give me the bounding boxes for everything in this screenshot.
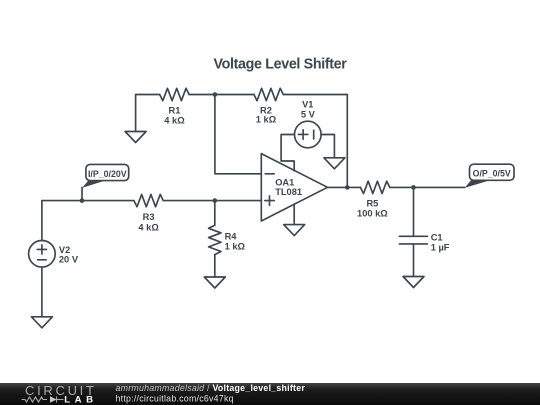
wire op-amp output to R5 <box>328 186 361 188</box>
capacitor C1 <box>399 236 427 244</box>
logo schematic glyph <box>22 397 64 403</box>
wire R2 to output node (feedback) <box>283 95 347 188</box>
wire ground to R1 <box>136 95 160 132</box>
wire C1 to ground <box>413 244 415 277</box>
wire op-amp V+ pin to V1 <box>281 135 294 171</box>
svg-text:1 kΩ: 1 kΩ <box>225 242 246 252</box>
wire V2 top <box>41 201 43 241</box>
resistor R3 <box>134 194 163 206</box>
svg-text:R1: R1 <box>169 105 181 115</box>
svg-text:R3: R3 <box>143 212 155 222</box>
voltage source V2 <box>29 241 56 268</box>
svg-text:V1: V1 <box>302 99 313 109</box>
wire node A down to inverting input <box>215 95 261 174</box>
wire V2 bottom to ground <box>41 267 43 317</box>
logo diode <box>50 396 57 402</box>
V2 plus mark <box>37 245 46 254</box>
svg-text:5 V: 5 V <box>301 110 316 120</box>
op-amp non-inverting pin mark <box>265 196 274 205</box>
ground G4 (C1) <box>403 277 424 288</box>
node A junction <box>213 92 218 97</box>
svg-text:4 kΩ: 4 kΩ <box>164 116 185 126</box>
wire V2 to R3 (input rail) <box>42 200 134 202</box>
op-amp inverting pin mark <box>265 173 274 175</box>
wire node to R4 <box>214 201 216 226</box>
ground G3 (op-amp) <box>284 225 305 236</box>
svg-text:LAB: LAB <box>64 395 97 405</box>
svg-text:TL081: TL081 <box>275 187 302 197</box>
svg-text:R4: R4 <box>225 231 238 241</box>
ground G6 (V2) <box>31 317 52 328</box>
ground G1 (below R1 left) <box>125 132 146 143</box>
wire output node to C1 <box>413 187 415 236</box>
svg-text:1 kΩ: 1 kΩ <box>256 114 277 124</box>
node input junction <box>80 198 85 203</box>
svg-text:C1: C1 <box>431 232 443 242</box>
op-amp OA1 <box>261 154 327 221</box>
svg-text:Voltage Level Shifter: Voltage Level Shifter <box>213 57 347 73</box>
wire V1 to ground <box>321 135 334 158</box>
node output junction <box>411 185 416 190</box>
svg-text:amrmuhammadelsaid / Voltage_le: amrmuhammadelsaid / Voltage_level_shifte… <box>116 383 306 393</box>
svg-text:http://circuitlab.com/c6v47kq: http://circuitlab.com/c6v47kq <box>116 393 234 403</box>
wire R4 to ground <box>214 255 216 277</box>
node R4 junction <box>213 198 218 203</box>
svg-text:O/P_0/5V: O/P_0/5V <box>473 169 511 179</box>
svg-text:100 kΩ: 100 kΩ <box>357 209 388 219</box>
resistor R1 <box>160 88 189 100</box>
svg-text:R5: R5 <box>366 198 378 208</box>
voltage source V1 <box>295 121 322 148</box>
ground G5 (R4) <box>204 277 225 288</box>
svg-text:20 V: 20 V <box>59 254 79 264</box>
V1 minus mark (rotated bar) <box>313 130 315 139</box>
footer bar <box>0 383 540 405</box>
V2 minus mark <box>38 259 47 261</box>
resistor R2 <box>254 88 283 100</box>
V1 plus mark <box>298 130 307 139</box>
wire node A to R2 <box>215 94 254 96</box>
net flag O/P_0/5V <box>465 164 514 188</box>
resistor R5 <box>360 181 389 193</box>
net flag I/P_0/20V <box>82 164 129 200</box>
wire R3 to op-amp non-inverting input <box>163 200 261 202</box>
wire R5 to output flag <box>390 186 465 188</box>
node feedback junction <box>345 185 350 190</box>
wire op-amp V- pin to ground <box>293 204 295 224</box>
wire R1 to node A <box>189 94 215 96</box>
ground G2 (V1) <box>324 158 345 169</box>
resistor R4 <box>209 225 221 254</box>
svg-text:4 kΩ: 4 kΩ <box>138 222 159 232</box>
svg-text:I/P_0/20V: I/P_0/20V <box>88 169 127 179</box>
svg-text:1 µF: 1 µF <box>431 243 450 253</box>
